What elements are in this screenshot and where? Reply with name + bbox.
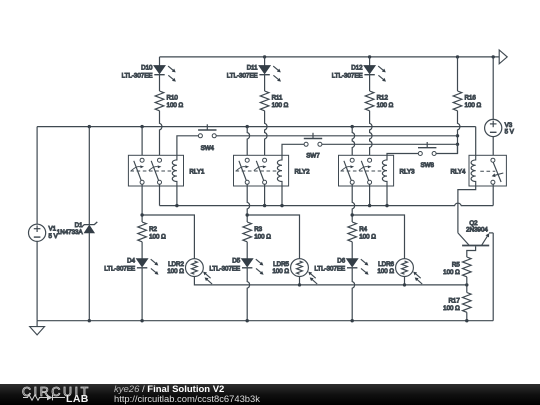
svg-text:RLY4: RLY4 (450, 169, 466, 176)
wire: R10 to RLY1 pin2 (160, 111, 162, 158)
svg-text:R4: R4 (359, 226, 367, 233)
svg-text:V1: V1 (49, 226, 57, 233)
wire: RLY1 pin1 to R2 node (141, 184, 143, 222)
svg-text:RLY2: RLY2 (295, 169, 311, 176)
resistor R11 100 ohm (260, 91, 288, 111)
relay RLY4 (450, 155, 506, 186)
svg-text:100 Ω: 100 Ω (272, 102, 289, 109)
LED D11 (LTL-307EE) (227, 65, 281, 82)
photoresistor LDR2 100 ohm (167, 259, 212, 284)
wire: RLY2 coil- to WA (281, 186, 283, 206)
svg-text:LTL-307EE: LTL-307EE (332, 72, 363, 79)
svg-text:R17: R17 (448, 298, 460, 305)
relay RLY2 (234, 155, 311, 186)
wire: RLY4 coil- to Q2 collector (458, 186, 476, 233)
svg-text:D10: D10 (141, 65, 153, 72)
svg-text:100 Ω: 100 Ω (167, 268, 184, 275)
wire: branch to LDR top (group 2) (247, 215, 299, 259)
relay RLY1 (128, 155, 205, 186)
node flag (output arrow) (499, 50, 507, 64)
svg-text:100 Ω: 100 Ω (254, 233, 271, 240)
wire: rail to D11 (264, 57, 266, 66)
pushbutton SW4 (198, 124, 216, 152)
wire: SW7 to RLY2 coil (282, 144, 304, 155)
photoresistor LDR6 100 ohm (377, 259, 422, 284)
junction dots on +V bus (88, 125, 354, 128)
wire: R12 to RLY3 pin2 (370, 111, 372, 158)
wire: RLY3 pin1 to R4 node (352, 184, 354, 222)
wire: D4 to ground bus (141, 268, 143, 321)
wire: RLY3 coil- to WA (386, 186, 388, 206)
svg-text:SW7: SW7 (306, 152, 320, 159)
photoresistor LDR5 100 ohm (272, 259, 317, 284)
svg-text:D4: D4 (127, 258, 135, 265)
svg-text:LTL-307EE: LTL-307EE (122, 72, 153, 79)
LED D10 (LTL-307EE) (122, 65, 176, 82)
svg-text:100 Ω: 100 Ω (377, 102, 394, 109)
wire: SW4 to RLY1 coil (177, 136, 198, 156)
wire: D10 to R10 (159, 75, 161, 91)
resistor R4 100 ohm (348, 222, 376, 242)
wire: +V bus to RLY4 coil (475, 127, 477, 156)
wire: +V bus (37, 126, 476, 128)
resistor R12 100 ohm (365, 91, 393, 111)
wire: D17 to ground bus (88, 233, 90, 321)
wire: R17 to ground bus (466, 312, 468, 320)
wire: +V bus to D17 (88, 127, 90, 225)
wire: +V bus to RLY3 pin1 (352, 127, 354, 159)
junction dot branch 2 (246, 213, 249, 216)
resistor R2 100 ohm (138, 222, 166, 242)
wire: R5 to R17 node (466, 277, 468, 293)
wire: RLY2 pin2 to WA (264, 184, 266, 205)
LED D6 (LTL-307EE) (314, 258, 368, 275)
wire: Q2 emitter to ground bus (492, 233, 494, 321)
wire: LDR5 to net (299, 277, 301, 285)
relay RLY3 (339, 155, 416, 186)
svg-text:100 Ω: 100 Ω (272, 268, 289, 275)
svg-text:R10: R10 (167, 95, 179, 102)
wire: rail to R16 (457, 57, 459, 91)
svg-text:R12: R12 (377, 95, 389, 102)
wire: RLY2 pin1 to R3 node (247, 184, 249, 222)
svg-text:D11: D11 (247, 65, 258, 72)
junction dot branch 3 (351, 213, 354, 216)
wire: +V bus to V1+ (36, 127, 38, 225)
wire: D11 to R11 (264, 75, 266, 91)
wire: R2 to D4 (141, 242, 143, 259)
svg-text:RLY1: RLY1 (189, 169, 205, 176)
voltage source V1 5V (28, 224, 58, 241)
pushbutton SW8 (418, 142, 436, 169)
svg-text:LDR6: LDR6 (378, 261, 394, 268)
junction dots on WA (175, 204, 388, 207)
svg-text:LTL-307EE: LTL-307EE (227, 72, 258, 79)
wire: +V bus to RLY1 pin1 (141, 127, 143, 159)
transistor Q2 2N3904 (458, 220, 493, 257)
wire: V3- to RLY4 switch (492, 137, 494, 159)
svg-text:R5: R5 (452, 262, 460, 269)
svg-text:R16: R16 (465, 95, 477, 102)
wire: relay common (WA) (160, 184, 494, 205)
wire: R4 to D6 (351, 242, 353, 259)
svg-text:100 Ω: 100 Ω (377, 268, 394, 275)
junction dots ground bus (88, 319, 469, 322)
wire: branch to LDR top (group 3) (352, 215, 404, 259)
junction dots on top rail (263, 55, 495, 58)
wire: SW7 to R16 net (WC) (322, 143, 458, 145)
svg-text:R2: R2 (149, 226, 157, 233)
wire: LDR6 to net (404, 277, 406, 285)
junction dots R16 column (456, 134, 459, 146)
wire: R3 to D5 (246, 242, 248, 259)
resistor R16 100 ohm (453, 91, 481, 111)
wire: LDR bottoms net (194, 277, 466, 285)
svg-text:D6: D6 (337, 258, 345, 265)
junction dots LDR net (298, 283, 469, 286)
wire: R16 down to switch net (458, 111, 460, 154)
svg-text:100 Ω: 100 Ω (443, 269, 460, 276)
wire: D5 to ground bus (247, 268, 249, 321)
zener diode D17 1N4733A (57, 222, 98, 236)
wire: RLY3 pin2 to WA (369, 184, 371, 205)
wire: D12 to R12 (369, 75, 371, 91)
svg-text:D12: D12 (351, 65, 363, 72)
svg-text:5 V: 5 V (505, 129, 515, 136)
svg-text:100 Ω: 100 Ω (167, 102, 184, 109)
wire: rail to D10 (159, 57, 161, 66)
wire: SW4 to R16 net (WB) (216, 135, 457, 137)
resistor R17 100 ohm (443, 293, 471, 313)
resistor R5 100 ohm (443, 257, 471, 277)
footer bar (0, 384, 540, 405)
resistor R3 100 ohm (243, 222, 271, 242)
wire: SW8 to RLY3 coil (387, 154, 418, 156)
svg-text:R3: R3 (254, 226, 262, 233)
svg-text:SW8: SW8 (420, 162, 434, 169)
LED D5 (LTL-307EE) (209, 258, 263, 275)
wire: rail to D12 (369, 57, 371, 66)
svg-text:R11: R11 (272, 95, 283, 102)
LED D12 (LTL-307EE) (332, 65, 386, 82)
wire: RLY1 coil- to WA (176, 186, 178, 206)
svg-text:100 Ω: 100 Ω (149, 233, 166, 240)
wire: top rail node (160, 56, 500, 58)
LED D4 (LTL-307EE) (104, 258, 158, 275)
title text (114, 385, 260, 405)
svg-text:LTL-307EE: LTL-307EE (104, 266, 135, 273)
pushbutton SW7 (304, 133, 322, 160)
wire: V1- to ground bus (36, 241, 38, 320)
junction dot branch 1 (140, 213, 143, 216)
svg-text:LDR2: LDR2 (168, 261, 184, 268)
svg-text:D5: D5 (232, 258, 240, 265)
svg-text:100 Ω: 100 Ω (443, 305, 460, 312)
wire: R11 to RLY2 pin2 (265, 111, 267, 158)
wire: rail to V3+ (492, 57, 494, 120)
voltage source V3 5V (485, 119, 515, 136)
svg-text:100 Ω: 100 Ω (465, 102, 482, 109)
svg-text:SW4: SW4 (201, 145, 215, 152)
wire: D6 to ground bus (352, 268, 354, 321)
wire: +V bus to RLY2 pin1 (247, 127, 249, 159)
svg-text:100 Ω: 100 Ω (359, 233, 376, 240)
svg-text:LTL-307EE: LTL-307EE (314, 266, 345, 273)
svg-text:D1: D1 (75, 222, 83, 229)
wire: branch to LDR top (group 1) (142, 215, 194, 259)
ground symbol (30, 321, 45, 335)
wire: ground bus (37, 320, 493, 322)
CircuitLab logo (0, 384, 110, 405)
svg-text:1N4733A: 1N4733A (57, 229, 84, 236)
svg-text:RLY3: RLY3 (400, 169, 416, 176)
svg-text:LTL-307EE: LTL-307EE (209, 266, 240, 273)
svg-text:2N3904: 2N3904 (466, 226, 488, 233)
svg-text:LDR5: LDR5 (273, 261, 289, 268)
wire: SW8 to R16 column (436, 144, 457, 153)
resistor R10 100 ohm (155, 91, 183, 111)
